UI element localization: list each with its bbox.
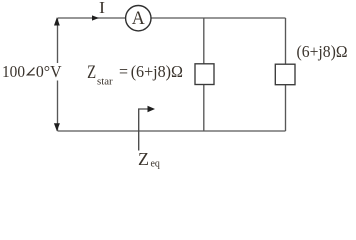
- svg-text:A: A: [132, 8, 145, 29]
- svg-text:0°V: 0°V: [36, 62, 62, 81]
- svg-text:eq: eq: [151, 159, 160, 170]
- svg-text:Z: Z: [138, 149, 149, 169]
- svg-text:(6+j8)Ω: (6+j8)Ω: [131, 62, 183, 81]
- svg-text:100: 100: [2, 62, 25, 81]
- svg-text:(6+j8)Ω: (6+j8)Ω: [297, 42, 348, 61]
- svg-text:I: I: [99, 0, 105, 17]
- svg-text:=: =: [119, 62, 128, 81]
- svg-text:Z: Z: [87, 62, 96, 83]
- svg-text:star: star: [97, 76, 113, 87]
